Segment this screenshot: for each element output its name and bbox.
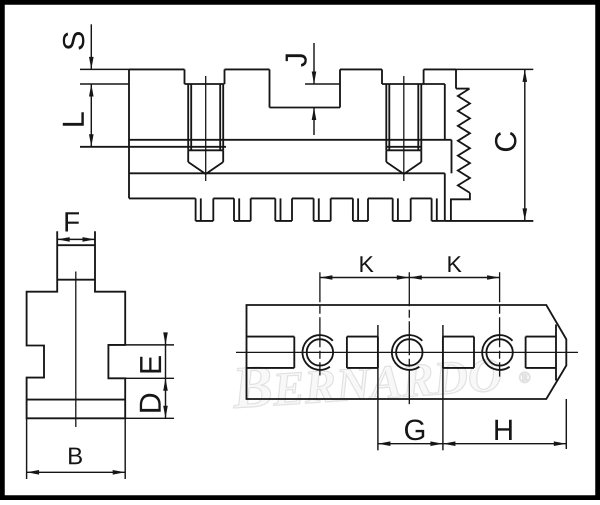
label G [405, 420, 424, 441]
front: block3 top [340, 68, 382, 70]
hole1 centerline / K ext [319, 272, 321, 375]
front: block1 right edge [184, 69, 186, 84]
front: block4 left edge [423, 69, 425, 84]
dimension B [26, 418, 28, 479]
top view: horizontal centerline [236, 351, 578, 353]
label B [69, 448, 82, 465]
label C [495, 132, 517, 151]
dimension S [80, 68, 129, 70]
front: block2 left edge [224, 69, 226, 84]
label H [495, 420, 511, 440]
threaded hole 3 [486, 339, 512, 365]
dimension J [305, 83, 340, 85]
dimension L [80, 83, 129, 85]
side view outline [27, 231, 126, 418]
side: internal line on tongue [57, 279, 95, 281]
front: internal line C [129, 172, 445, 174]
front: block1 top [129, 68, 185, 70]
label F [65, 212, 79, 231]
front: band right edge [451, 140, 453, 174]
dimension K (left) [320, 277, 409, 279]
dimension K (right) [409, 277, 499, 279]
dimension E [108, 344, 174, 346]
label S [63, 32, 85, 50]
dimension F [57, 238, 95, 240]
front: internal line B left (L reference) [80, 146, 226, 148]
label K left [360, 256, 373, 272]
front: bottom edge right extension (C dim) [445, 220, 534, 222]
front: internal line A [129, 139, 452, 141]
front: serration ledge [456, 88, 470, 90]
svg-text:®: ® [518, 369, 531, 387]
top view slot 3 [526, 336, 556, 338]
front: internal line B at right screw [386, 146, 421, 148]
label L [63, 112, 84, 125]
label K right [448, 256, 461, 272]
watermark BERNARDO [229, 335, 532, 421]
label J [286, 54, 307, 66]
front: right lower vertical [444, 173, 446, 221]
dimension C [456, 68, 533, 70]
label D [140, 394, 161, 412]
side: top edge of tongue [57, 244, 95, 246]
front view: body left edge [128, 69, 130, 198]
hole3 centerline / K ext [499, 272, 501, 376]
threaded hole 2 [396, 339, 422, 365]
front: block3 right edge [381, 69, 383, 84]
front: bottom guide teeth [129, 197, 196, 199]
front: serration backdrop vertical upper [444, 84, 446, 140]
top view: inner tip edge [555, 325, 557, 381]
screw hole right (section) [385, 84, 387, 150]
dimension G [377, 325, 379, 450]
side: internal line lower [27, 399, 126, 401]
front: tooth 2 [233, 198, 235, 221]
front: tooth 1 [195, 198, 197, 221]
side: centerline [75, 272, 77, 428]
label E [140, 356, 161, 372]
dimension H [565, 399, 567, 449]
top view slot 2 [443, 336, 474, 338]
front: block4 top [424, 68, 456, 70]
front: surface between block1-2 [185, 83, 225, 85]
front: surface between block3-4 [382, 83, 445, 85]
threaded hole 1 [307, 339, 333, 365]
front: block4 right edge [455, 69, 457, 88]
front: tooth 7 [431, 198, 433, 221]
front: groove right wall [339, 69, 341, 107]
hole2 centerline / K+G ext [408, 272, 410, 405]
front: block2 top [225, 68, 270, 70]
front: tooth 4 [313, 198, 315, 221]
top view slot 1 [347, 336, 378, 338]
front: tooth 6 [392, 198, 394, 221]
front: serrated right edge (zigzag) [458, 89, 470, 193]
top view bar outline with chamfered tip [247, 305, 567, 399]
dimension D [125, 417, 174, 419]
front: groove bottom [270, 107, 341, 109]
screw hole left (section) [187, 84, 189, 150]
front: tooth 5 [352, 198, 354, 221]
front: tooth 3 [274, 198, 276, 221]
top view slot 0 [247, 336, 295, 338]
front: bottom right foot [451, 193, 470, 221]
front: groove left wall [269, 69, 271, 107]
